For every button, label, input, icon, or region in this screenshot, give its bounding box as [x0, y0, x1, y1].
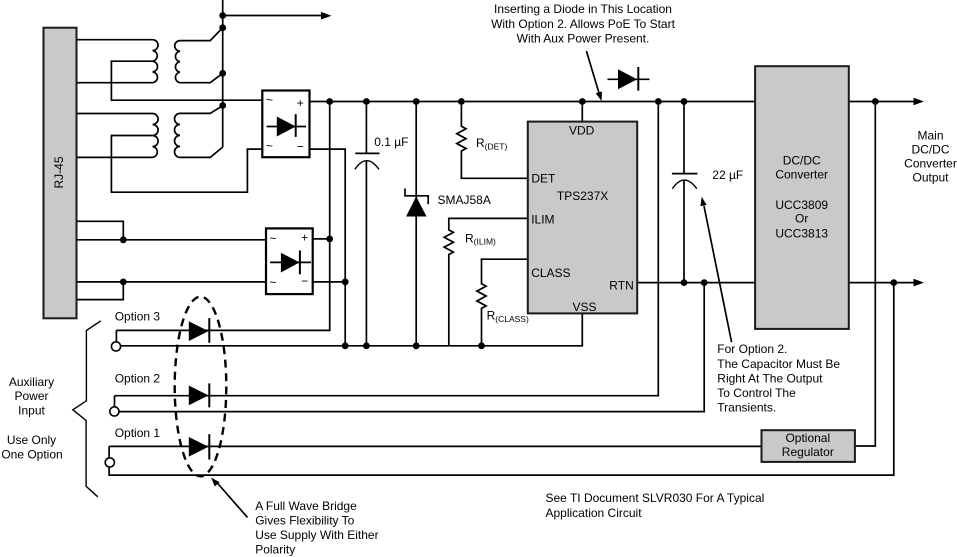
svg-text:One Option: One Option [1, 448, 62, 462]
svg-text:See TI Document SLVR030 For A: See TI Document SLVR030 For A Typical [546, 491, 765, 505]
svg-text:TPS237X: TPS237X [557, 189, 608, 203]
svg-text:Converter: Converter [775, 168, 828, 182]
svg-text:~: ~ [269, 232, 276, 246]
svg-text:For Option 2.: For Option 2. [717, 342, 787, 356]
svg-text:VDD: VDD [569, 123, 595, 137]
svg-text:Gives Flexibility To: Gives Flexibility To [255, 513, 354, 527]
svg-text:Optional: Optional [785, 431, 830, 445]
svg-text:DC/DC: DC/DC [912, 143, 950, 157]
svg-text:UCC3809: UCC3809 [775, 198, 828, 212]
svg-text:Regulator: Regulator [782, 445, 834, 459]
svg-text:Converter: Converter [904, 157, 957, 171]
svg-text:0.1 µF: 0.1 µF [374, 135, 408, 149]
svg-text:RJ-45: RJ-45 [52, 156, 66, 188]
svg-text:A Full Wave Bridge: A Full Wave Bridge [255, 499, 357, 513]
svg-text:Auxiliary: Auxiliary [9, 375, 54, 389]
svg-text:SMAJ58A: SMAJ58A [438, 193, 491, 207]
svg-text:~: ~ [269, 276, 276, 290]
svg-text:Power: Power [14, 389, 48, 403]
svg-text:To Control The: To Control The [717, 386, 796, 400]
svg-text:Right At The Output: Right At The Output [717, 371, 823, 385]
svg-text:Option 3: Option 3 [115, 310, 161, 324]
svg-text:Polarity: Polarity [255, 542, 295, 556]
svg-text:Or: Or [795, 212, 808, 226]
svg-text:Use Only: Use Only [7, 433, 56, 447]
svg-text:DC/DC: DC/DC [783, 153, 821, 167]
svg-text:+: + [301, 231, 308, 245]
svg-text:~: ~ [266, 139, 273, 153]
svg-text:With Aux Power Present.: With Aux Power Present. [517, 32, 650, 46]
svg-text:VSS: VSS [572, 300, 596, 314]
svg-text:−: − [297, 140, 304, 154]
svg-text:Option 1: Option 1 [115, 426, 161, 440]
svg-text:−: − [301, 274, 308, 288]
svg-text:RTN: RTN [609, 279, 633, 293]
svg-text:CLASS: CLASS [531, 266, 570, 280]
svg-text:UCC3813: UCC3813 [775, 226, 828, 240]
svg-text:Option 2: Option 2 [115, 372, 161, 386]
svg-text:22 µF: 22 µF [712, 168, 743, 182]
svg-text:Output: Output [912, 170, 949, 184]
svg-text:ILIM: ILIM [531, 212, 554, 226]
svg-text:The Capacitor Must Be: The Capacitor Must Be [717, 357, 840, 371]
svg-text:+: + [297, 96, 304, 110]
svg-text:Use Supply With Either: Use Supply With Either [255, 528, 378, 542]
svg-text:Application Circuit: Application Circuit [546, 506, 643, 520]
svg-text:Input: Input [18, 403, 45, 417]
svg-text:With Option 2. Allows PoE To S: With Option 2. Allows PoE To Start [491, 17, 676, 31]
svg-text:~: ~ [266, 93, 273, 107]
svg-text:DET: DET [531, 172, 556, 186]
svg-text:Main: Main [917, 128, 943, 142]
svg-text:Transients.: Transients. [717, 401, 776, 415]
svg-text:Inserting a Diode in This Loca: Inserting a Diode in This Location [494, 2, 672, 16]
